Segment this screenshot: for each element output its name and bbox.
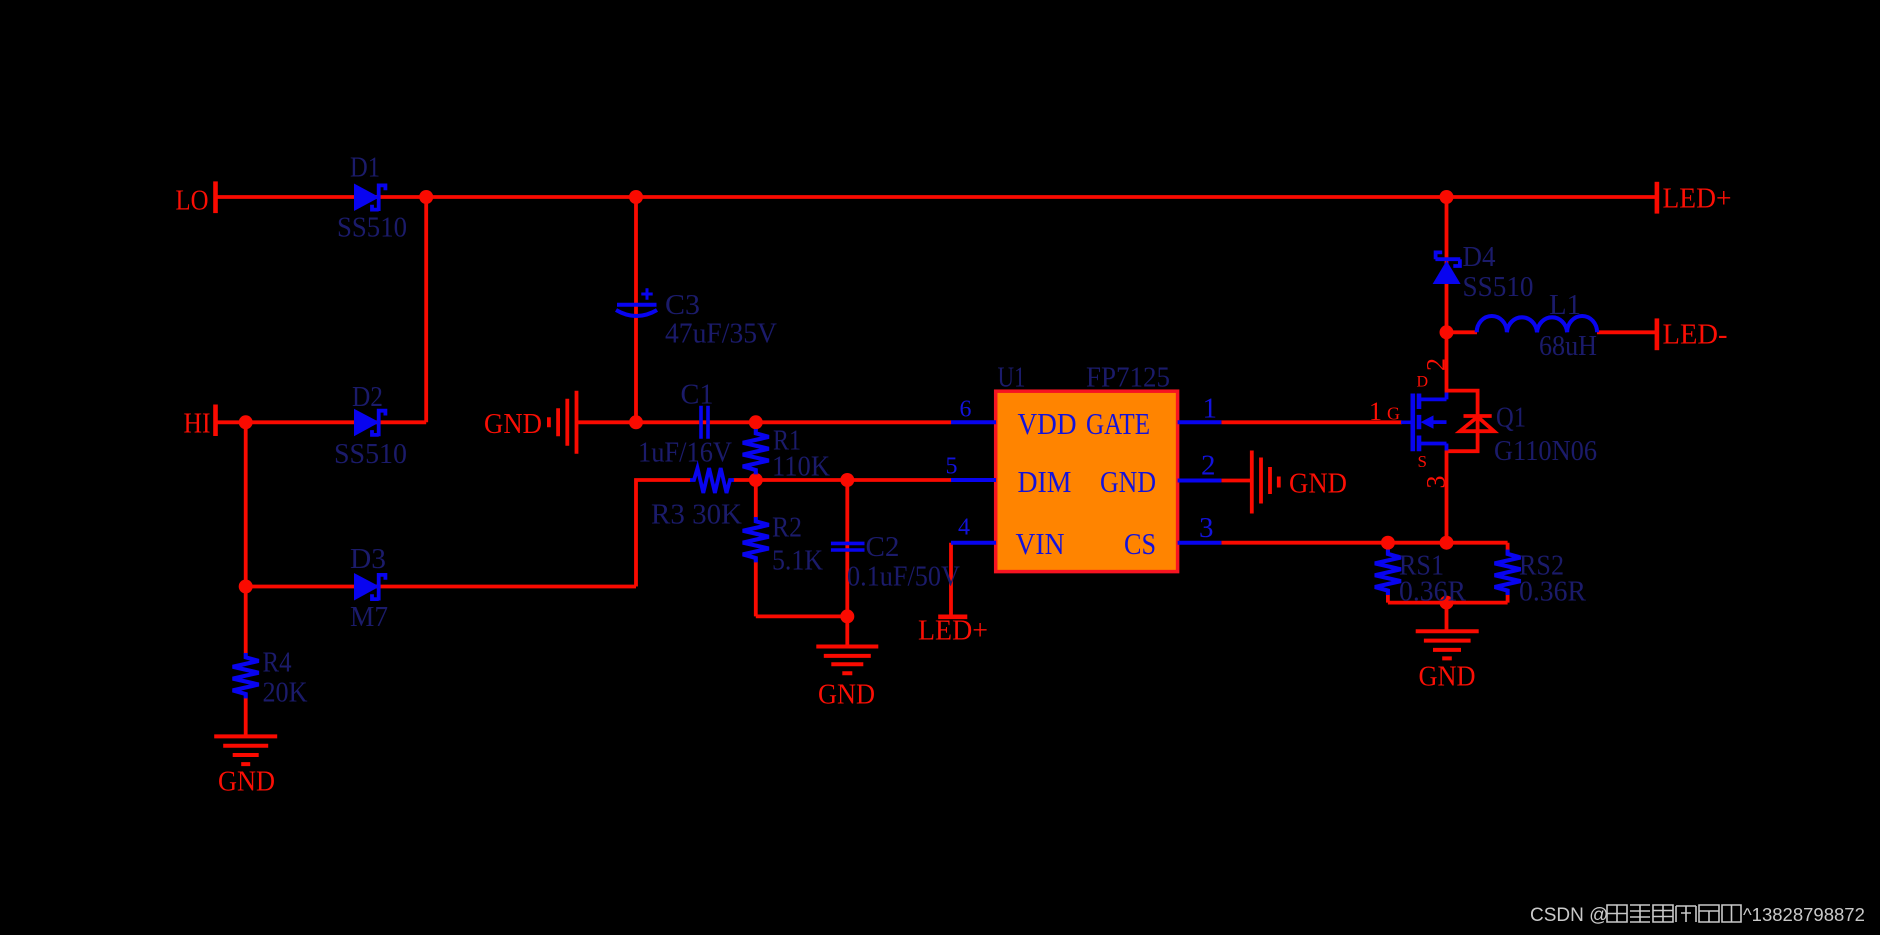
wire RS1 column — [1386, 543, 1390, 603]
node LED+ port bar — [1655, 182, 1660, 214]
node LED+ pin4 port bar — [938, 614, 967, 619]
svg-text:C1: C1 — [681, 380, 714, 411]
svg-text:L1: L1 — [1549, 290, 1581, 321]
svg-text:LO: LO — [176, 185, 209, 217]
wire C2 ground stem — [845, 616, 849, 646]
svg-text:0.36R: 0.36R — [1399, 577, 1466, 608]
wire drain column through D4 — [1445, 197, 1449, 393]
svg-text:GND: GND — [1289, 468, 1347, 500]
wire bend up to R3 left — [636, 480, 691, 587]
svg-text:DIM: DIM — [1018, 464, 1072, 499]
wire C3 column — [634, 197, 638, 422]
svg-text:110K: 110K — [772, 452, 830, 483]
ground symbol under RS — [1416, 631, 1479, 658]
svg-text:5: 5 — [946, 454, 958, 480]
pin 6 VDD stub — [951, 420, 996, 424]
wire vertical D1 junction down to D2 cathode — [424, 197, 428, 422]
svg-text:2: 2 — [1422, 358, 1451, 371]
wire RS ground stem — [1445, 603, 1449, 630]
svg-text:SS510: SS510 — [334, 439, 407, 470]
svg-text:LED+: LED+ — [1663, 183, 1732, 215]
capacitor C1 — [701, 406, 708, 439]
wire L1 left lead — [1447, 330, 1478, 334]
transistor Q1 body diode — [1460, 416, 1494, 431]
resistor RS2 — [1495, 550, 1521, 595]
pin 4 VIN stub — [951, 541, 996, 545]
pin 5 DIM stub — [951, 478, 996, 482]
svg-text:GND: GND — [818, 679, 875, 711]
ground symbol pin2 — [1252, 451, 1279, 514]
junction source / RS — [1440, 536, 1454, 550]
svg-text:HI: HI — [184, 408, 211, 440]
svg-text:U1: U1 — [998, 363, 1026, 394]
resistor R2 — [743, 517, 769, 562]
svg-text:4: 4 — [958, 515, 970, 541]
svg-text:SS510: SS510 — [337, 213, 407, 244]
wire DIM row from R3 to pin 5 — [733, 478, 951, 482]
svg-text:D1: D1 — [350, 153, 380, 184]
svg-text:VDD: VDD — [1018, 406, 1077, 441]
diode D1 — [354, 184, 380, 212]
pin 2 GND stub — [1178, 479, 1222, 483]
wire D3 row — [246, 585, 636, 589]
wire R2 column — [754, 480, 758, 616]
junction C1 / R1 — [749, 415, 763, 429]
svg-text:D: D — [1417, 374, 1429, 391]
svg-text:5.1K: 5.1K — [772, 546, 823, 577]
svg-text:^13828798872: ^13828798872 — [1743, 904, 1865, 925]
svg-text:GND: GND — [1100, 464, 1156, 499]
node HI port bar — [213, 405, 218, 437]
svg-text:VIN: VIN — [1016, 526, 1065, 561]
svg-text:20K: 20K — [263, 678, 308, 709]
svg-text:GND: GND — [218, 766, 275, 798]
junction C3 top — [629, 190, 643, 204]
wire R1 column — [754, 422, 758, 480]
wire R4 column — [244, 587, 248, 737]
wire pin 2 to ground — [1221, 479, 1251, 483]
ground symbol under R4 — [214, 736, 277, 764]
svg-text:FP7125: FP7125 — [1086, 363, 1170, 394]
ground symbol under C2 — [816, 647, 878, 674]
junction HI — [239, 415, 253, 429]
resistor R1 — [743, 429, 769, 474]
wire CS row — [1221, 541, 1507, 545]
svg-text:3: 3 — [1199, 512, 1214, 544]
capacitor C2 — [831, 543, 865, 550]
wire gate from pin 1 — [1221, 420, 1402, 424]
wire GND stub to junction — [577, 420, 636, 424]
transistor Q1 MOSFET blue symbol — [1401, 420, 1411, 424]
svg-text:CSDN @: CSDN @ — [1530, 905, 1608, 926]
junction C3 bottom / GND / C1 — [629, 415, 643, 429]
wire source column to CS row — [1445, 451, 1449, 543]
svg-text:G110N06: G110N06 — [1494, 436, 1597, 467]
resistor RS1 — [1375, 550, 1401, 595]
node LO port bar — [213, 181, 218, 213]
wire HI row through D2 — [218, 420, 427, 424]
resistor R3 — [690, 468, 734, 493]
svg-text:D3: D3 — [350, 544, 386, 575]
node LED- port bar — [1655, 318, 1660, 350]
wire body diode branch — [1447, 391, 1478, 452]
diode D3 — [354, 573, 380, 601]
junction C2 bottom — [840, 609, 854, 623]
svg-text:M7: M7 — [350, 602, 388, 633]
ground symbol left (signal gnd near C3) — [549, 391, 577, 454]
svg-text:LED+: LED+ — [918, 615, 988, 647]
junction RS bottom — [1440, 596, 1454, 610]
wire HI junction down to D3 row — [244, 422, 248, 586]
wire C2 column — [845, 480, 849, 616]
wire pin4 LED+ drop — [949, 543, 953, 616]
svg-text:GND: GND — [1419, 661, 1476, 693]
svg-text:Q1: Q1 — [1496, 403, 1526, 434]
svg-text:3: 3 — [1422, 476, 1451, 489]
svg-text:68uH: 68uH — [1539, 331, 1597, 362]
svg-text:R3 30K: R3 30K — [651, 500, 742, 531]
svg-text:CS: CS — [1124, 526, 1156, 561]
junction C2 top — [840, 473, 854, 487]
svg-text:LED-: LED- — [1663, 319, 1728, 351]
svg-text:0.36R: 0.36R — [1519, 577, 1586, 608]
svg-text:GATE: GATE — [1086, 406, 1150, 441]
diode D4 — [1433, 261, 1461, 284]
capacitor C3 — [617, 303, 657, 307]
junction D3 branch — [239, 580, 253, 594]
svg-text:R2: R2 — [772, 513, 802, 544]
pin 1 GATE stub — [1178, 420, 1222, 424]
junction RS1 top — [1381, 536, 1395, 550]
diode D2 — [354, 409, 380, 437]
svg-text:SS510: SS510 — [1463, 272, 1534, 303]
svg-text:D2: D2 — [352, 382, 383, 413]
junction D4 / L1 / drain — [1440, 325, 1454, 339]
svg-text:G: G — [1387, 404, 1400, 424]
op-amp U1 IC box FP7125 — [996, 391, 1178, 571]
svg-text:C2: C2 — [866, 532, 900, 563]
svg-text:S: S — [1418, 452, 1427, 471]
svg-text:C3: C3 — [665, 290, 700, 321]
wire L1 right lead to LED- — [1597, 330, 1655, 334]
svg-text:GND: GND — [484, 408, 542, 440]
svg-text:D4: D4 — [1463, 242, 1496, 273]
svg-text:1: 1 — [1369, 397, 1382, 426]
svg-text:R4: R4 — [263, 648, 292, 679]
svg-text:0.1uF/50V: 0.1uF/50V — [847, 562, 960, 593]
wire RS bottom row — [1388, 601, 1508, 605]
junction R1 / R3 / R2 — [749, 473, 763, 487]
inductor L1 — [1477, 316, 1597, 332]
wire RS2 column — [1506, 543, 1510, 603]
pin 3 CS stub — [1178, 541, 1222, 545]
svg-text:1uF/16V: 1uF/16V — [638, 438, 732, 469]
wire bottom row R2 to C2 — [756, 615, 848, 619]
svg-text:6: 6 — [960, 397, 972, 423]
resistor R4 — [233, 653, 259, 698]
svg-text:1: 1 — [1203, 393, 1218, 425]
svg-text:47uF/35V: 47uF/35V — [665, 319, 777, 350]
wire VDD row through C1 — [636, 420, 951, 424]
junction LED+ / D4 — [1440, 190, 1454, 204]
junction D1 output — [419, 190, 433, 204]
svg-text:2: 2 — [1201, 450, 1216, 482]
wire top rail LO to LED+ — [218, 195, 1656, 199]
